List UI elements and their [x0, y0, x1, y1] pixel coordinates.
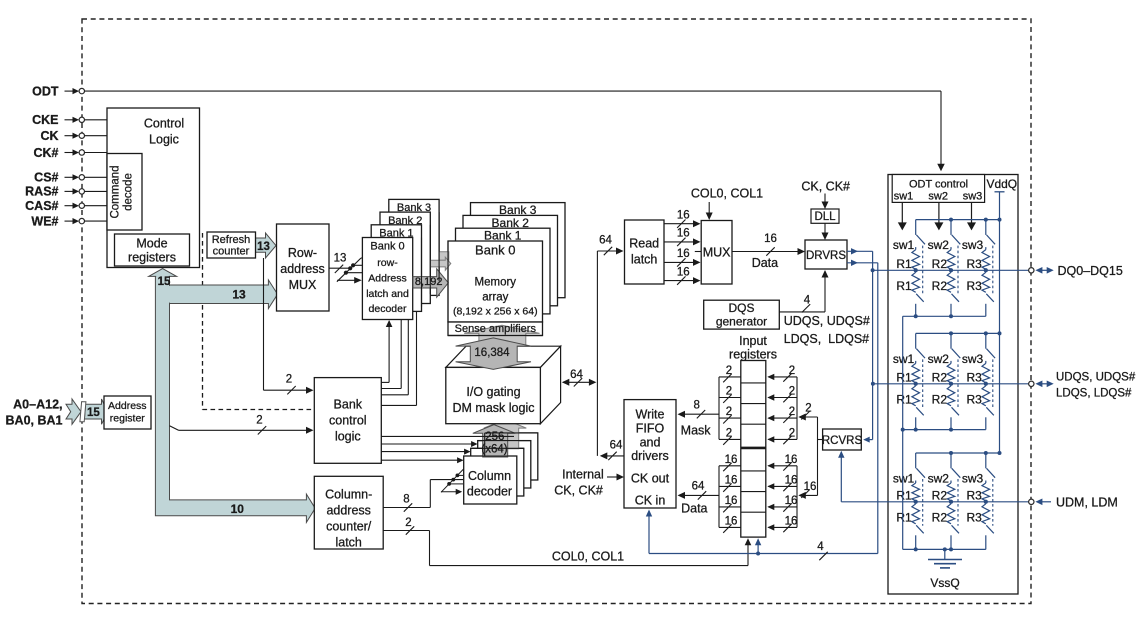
ODT control block [892, 175, 984, 203]
svg-text:64: 64 [599, 235, 612, 247]
svg-text:2: 2 [726, 428, 732, 440]
svg-text:MUX: MUX [703, 246, 731, 260]
resistor R3 upper of group 3 DM termination [985, 481, 987, 484]
svg-text:VssQ: VssQ [930, 576, 959, 590]
switch sw2 of group 2 DQS termination [950, 333, 952, 348]
switch control dashed link sw1 [922, 359, 924, 407]
wire DRVRS output to DQ net [847, 250, 873, 252]
wires bank control logic to row decoders behind banks [381, 388, 401, 390]
switch control arrows sw1 sw2 sw3 [901, 202, 903, 223]
svg-text:sw2: sw2 [928, 238, 950, 252]
svg-text:UDQS, UDQS#: UDQS, UDQS# [784, 314, 870, 328]
junction dot column 1 [914, 500, 918, 504]
bidirectional arrow DQ [1039, 269, 1050, 271]
RCVRS block [823, 429, 862, 450]
svg-text:Data: Data [752, 256, 778, 270]
svg-text:R2: R2 [932, 510, 948, 524]
switch sw2 lower blade of group 2 DQS termination [952, 407, 960, 415]
svg-text:sw1: sw1 [893, 472, 915, 486]
wire internal clock into write FIFO [607, 476, 622, 478]
wire WE# to control logic [85, 220, 108, 222]
gray arrow 16384 shadow [464, 325, 539, 357]
chip boundary dashed border [82, 19, 1031, 604]
junction dot column 3 [984, 382, 988, 386]
VddQ supply wire [995, 191, 1005, 193]
svg-text:16: 16 [677, 209, 690, 221]
svg-text:latch: latch [631, 253, 657, 267]
svg-text:registers: registers [729, 348, 777, 362]
bidirectional arrow DQS [1039, 383, 1050, 385]
svg-text:DRVRS: DRVRS [806, 250, 846, 262]
svg-text:Address: Address [108, 400, 147, 412]
bank 1 row decoder box [371, 225, 421, 312]
teal arrow 13 from refresh counter to row-address MUX [256, 233, 277, 258]
svg-text:FIFO: FIFO [636, 422, 665, 436]
resistor R3 lower of group 3 DM termination [982, 504, 990, 524]
svg-text:16: 16 [785, 495, 798, 507]
wire 13 from row-address MUX to bank row decoders [329, 267, 350, 269]
svg-text:latch: latch [335, 536, 361, 550]
svg-text:16,384: 16,384 [474, 347, 510, 359]
svg-text:Memory: Memory [475, 276, 517, 288]
right bus wires into data register cells width 16 [796, 466, 798, 528]
resistor R3 lower of group 2 DQS termination [982, 386, 990, 406]
wire bank control logic to bank 3 column decoder [381, 435, 514, 437]
svg-text:DQ0–DQ15: DQ0–DQ15 [1058, 264, 1123, 278]
switch sw3 lower blade of group 3 DM termination [986, 525, 994, 533]
svg-text:16: 16 [804, 481, 817, 493]
svg-text:DQS: DQS [728, 301, 754, 315]
command decode block [107, 154, 142, 231]
control logic block [107, 108, 200, 268]
svg-text:2: 2 [256, 415, 262, 427]
svg-text:R2: R2 [932, 392, 948, 406]
switch sw3 of group 2 DQS termination [985, 333, 987, 348]
ODT group 2 DQS termination bottom rail [903, 429, 986, 431]
svg-text:RCVRS: RCVRS [822, 435, 863, 447]
svg-text:16: 16 [677, 266, 690, 278]
svg-text:decode: decode [123, 173, 135, 211]
refresh counter block [207, 232, 256, 258]
svg-text:R1: R1 [896, 257, 912, 271]
gray bus arrow 8192 shadow bank2 [439, 252, 449, 260]
svg-text:Bank 0: Bank 0 [475, 242, 515, 257]
sense amplifiers block [448, 322, 543, 336]
wire 64 double arrow I/O gating to data bus [563, 381, 595, 383]
row-address MUX block [277, 224, 330, 311]
svg-text:CAS#: CAS# [25, 199, 58, 213]
svg-text:64: 64 [692, 480, 705, 492]
switch control dashed link sw3 [992, 246, 994, 295]
svg-text:LDQS, LDQS#: LDQS, LDQS# [784, 332, 869, 346]
resistor R3 upper of group 1 DQ termination [985, 247, 987, 250]
svg-text:R1: R1 [896, 510, 912, 524]
resistor R2 lower of group 1 DQ termination [947, 272, 955, 292]
resistor R1 upper of group 2 DQS termination [915, 361, 917, 364]
wire ODT to ODT control [85, 90, 942, 92]
switch sw1 lower blade of group 2 DQS termination [916, 407, 924, 415]
svg-text:16: 16 [677, 228, 690, 240]
wire CAS# to control logic [85, 205, 108, 207]
svg-text:R3: R3 [966, 510, 982, 524]
wire address band to bank control logic with width 2 [170, 426, 179, 431]
svg-text:CS#: CS# [34, 171, 58, 185]
svg-text:Command: Command [110, 165, 122, 218]
input registers block [741, 361, 766, 538]
svg-text:Control: Control [144, 117, 184, 131]
svg-text:Data: Data [681, 501, 707, 515]
svg-text:13: 13 [334, 252, 347, 264]
bank 2 memory array box [463, 215, 558, 305]
sense amplifiers bottom edge over shadow [448, 335, 543, 337]
svg-text:UDM, LDM: UDM, LDM [1056, 495, 1118, 509]
junction dot column 2 [949, 268, 953, 272]
svg-text:15: 15 [158, 276, 171, 288]
wire DRVRS output to DQS net [847, 262, 878, 264]
svg-text:R1: R1 [896, 488, 912, 502]
svg-text:logic: logic [335, 430, 361, 444]
svg-text:Column-: Column- [325, 488, 372, 502]
svg-text:(x64): (x64) [481, 443, 507, 455]
svg-text:Internal: Internal [562, 468, 604, 482]
wire refresh path down to bank control logic with width 2 [263, 258, 265, 390]
wires 16 read latch to MUX [664, 223, 699, 225]
svg-text:16: 16 [785, 454, 798, 466]
tick on MUX left edge [695, 251, 701, 253]
switch sw2 of group 1 DQ termination [950, 220, 952, 235]
svg-text:counter/: counter/ [326, 520, 372, 534]
switch sw3 lower blade of group 2 DQS termination [986, 407, 994, 415]
svg-text:and: and [640, 436, 661, 450]
vertical DQS distribution wire [877, 263, 879, 554]
svg-text:MUX: MUX [289, 278, 317, 292]
svg-text:address: address [280, 262, 324, 276]
svg-text:row-: row- [377, 257, 398, 269]
left bus wires for mask register cells width 2 [718, 377, 720, 440]
resistor R2 upper of group 1 DQ termination [950, 247, 952, 250]
svg-text:4: 4 [817, 541, 824, 553]
ODT group 3 DM termination top rail [916, 452, 1000, 454]
svg-text:8: 8 [693, 399, 699, 411]
wire CK to control logic [85, 135, 108, 137]
svg-text:latch and: latch and [366, 288, 409, 300]
svg-text:Bank: Bank [334, 398, 363, 412]
ODT termination outer box [888, 175, 1018, 595]
teal vertical address bus band with arrow 10 to column-address counter [155, 276, 315, 523]
svg-text:sw3: sw3 [963, 191, 983, 203]
svg-text:R1: R1 [896, 370, 912, 384]
svg-text:sw2: sw2 [928, 191, 948, 203]
bank 1 memory array box [456, 228, 551, 314]
svg-text:ODT: ODT [32, 84, 59, 98]
wire 64 from write FIFO to data bus [601, 455, 624, 457]
svg-text:Row-: Row- [288, 246, 317, 260]
svg-text:8,192: 8,192 [415, 276, 443, 288]
svg-text:WE#: WE# [31, 214, 58, 228]
svg-text:drivers: drivers [631, 449, 669, 463]
svg-text:CKE: CKE [32, 113, 58, 127]
wire 64 Data from input registers to write FIFO [679, 494, 719, 496]
ODT group 1 DQ termination top rail [916, 219, 1000, 221]
gray arrow 256 x64 shadow [484, 419, 527, 448]
svg-text:sw3: sw3 [962, 472, 984, 486]
wire 4 DQS feedback to input registers and write FIFO [649, 553, 878, 555]
restroked column decoder edges over gray arrow [485, 432, 538, 434]
gray arrow 256 x64 from column decoder to I/O gating [473, 425, 516, 457]
svg-text:DM mask logic: DM mask logic [453, 401, 535, 415]
wire DQ0-DQ15 line [873, 269, 1029, 271]
resistor R1 lower of group 3 DM termination [912, 504, 920, 524]
svg-text:CK#: CK# [33, 146, 58, 160]
svg-text:COL0, COL1: COL0, COL1 [691, 187, 763, 201]
svg-text:8: 8 [403, 494, 409, 506]
svg-text:decoder: decoder [467, 484, 512, 498]
svg-text:R3: R3 [966, 392, 982, 406]
wire 4 DQS generator to DRVRS [779, 311, 825, 313]
right bus wires into mask register cells width 2 [796, 377, 798, 440]
thick divider between mask and data registers [741, 447, 766, 450]
svg-text:registers: registers [128, 251, 176, 265]
svg-text:2: 2 [726, 365, 732, 377]
ODT group 3 DM termination bottom rail [903, 548, 986, 550]
switch control dashed link sw1 [922, 246, 924, 295]
svg-text:Input: Input [739, 334, 767, 348]
resistor R3 lower of group 1 DQ termination [982, 272, 990, 292]
svg-text:Refresh: Refresh [212, 234, 251, 246]
svg-text:Bank 0: Bank 0 [370, 241, 404, 253]
wire bank control logic to bank 0 row decoder [381, 381, 389, 383]
wire RCVRS output to register clock buses [818, 439, 823, 441]
svg-text:sw1: sw1 [894, 191, 914, 203]
teal address bus A0-A12 input arrow outer part [66, 399, 81, 424]
svg-text:2: 2 [726, 406, 732, 418]
vertical DQ distribution wire to RCVRS [872, 251, 874, 439]
write FIFO and drivers block [624, 400, 676, 508]
restroked bank box edges over gray arrows [421, 238, 423, 307]
svg-text:13: 13 [232, 287, 246, 301]
MUX block [701, 221, 732, 285]
bank 3 memory array box [471, 203, 566, 298]
dashed control line from refresh counter to bank control logic [202, 233, 204, 410]
svg-text:R3: R3 [966, 257, 982, 271]
svg-text:generator: generator [716, 315, 767, 329]
resistor R1 upper of group 1 DQ termination [915, 247, 917, 250]
svg-text:CK out: CK out [631, 472, 670, 486]
svg-text:DLL: DLL [814, 211, 836, 223]
junction dot column 2 [949, 382, 953, 386]
svg-text:ODT control: ODT control [909, 178, 968, 190]
svg-text:Mode: Mode [136, 237, 167, 251]
wire 64 into read latch [597, 250, 621, 252]
teal address bus A0-A12 input arrow inner part [84, 399, 107, 424]
bank 3 row decoder box [389, 199, 439, 295]
svg-text:CK: CK [40, 129, 58, 143]
teal bus arrow 15 up into mode registers [149, 269, 177, 277]
switch sw1 of group 1 DQ termination [915, 220, 917, 235]
svg-text:Read: Read [629, 237, 659, 251]
wire 8 Mask from input registers to write FIFO [679, 413, 719, 415]
junction dot column 3 [984, 500, 988, 504]
switch sw2 lower blade of group 1 DQ termination [952, 294, 960, 302]
wire 8 from column-address counter to column decoders [383, 507, 430, 509]
switch sw1 lower blade of group 1 DQ termination [916, 294, 924, 302]
bank 2 column decoder box [478, 441, 531, 488]
junction dot column 1 [914, 268, 918, 272]
svg-text:I/O gating: I/O gating [466, 385, 520, 399]
read latch block [625, 220, 665, 284]
svg-text:2: 2 [405, 517, 411, 529]
svg-text:Column: Column [468, 469, 511, 483]
bank 0 row-address latch and decoder block [362, 238, 412, 320]
switch control dashed link sw2 [957, 246, 959, 295]
bank 0 column decoder block [464, 456, 517, 504]
svg-text:COL0, COL1: COL0, COL1 [552, 550, 624, 564]
junction dot column 3 [984, 268, 988, 272]
svg-text:CK, CK#: CK, CK# [554, 484, 603, 498]
svg-text:Mask: Mask [681, 424, 712, 438]
resistor R1 lower of group 2 DQS termination [912, 386, 920, 406]
bank control logic block [314, 378, 381, 464]
svg-text:sw2: sw2 [928, 352, 950, 366]
resistor R3 upper of group 2 DQS termination [985, 361, 987, 364]
resistor R2 upper of group 3 DM termination [950, 481, 952, 484]
svg-text:64: 64 [610, 439, 623, 451]
bank 2 row decoder box [380, 212, 430, 303]
resistor R2 lower of group 2 DQS termination [947, 386, 955, 406]
DQS generator block [704, 300, 780, 329]
svg-text:2: 2 [286, 374, 292, 386]
wire UDM net up into RCVRS [840, 452, 842, 502]
svg-text:16: 16 [677, 248, 690, 260]
svg-text:Write: Write [636, 408, 665, 422]
gray bus arrow 8192 to memory array [413, 269, 448, 297]
input arrow UDM LDM [1039, 501, 1051, 503]
wires bank control logic to column decoders [381, 443, 476, 445]
svg-text:array: array [482, 291, 508, 303]
svg-text:BA0, BA1: BA0, BA1 [6, 414, 63, 428]
wire DLL to DRVRS [824, 223, 826, 238]
svg-text:VddQ: VddQ [986, 177, 1017, 191]
switch sw3 of group 3 DM termination [985, 453, 987, 468]
svg-text:16: 16 [785, 516, 798, 528]
svg-text:counter: counter [213, 246, 250, 258]
svg-text:13: 13 [257, 241, 270, 253]
svg-text:A0–A12,: A0–A12, [13, 398, 62, 412]
svg-text:16: 16 [764, 233, 777, 245]
wire CK to DLL [824, 194, 826, 208]
wire CK# to control logic [85, 152, 108, 154]
svg-text:register: register [110, 413, 146, 425]
svg-text:control: control [329, 414, 367, 428]
wire RAS# to control logic [85, 190, 108, 192]
gray double arrow 16384 between sense amplifiers and I/O gating [456, 338, 531, 370]
bank 1 column decoder box [471, 448, 524, 496]
svg-text:R3: R3 [966, 488, 982, 502]
wire CKE to control logic [85, 119, 108, 121]
I/O gating DM mask logic block 3D box [446, 346, 561, 367]
ODT group 2 DQS termination top rail [916, 332, 1000, 334]
svg-text:15: 15 [87, 407, 100, 419]
svg-text:10: 10 [231, 502, 245, 516]
ODT group 1 DQ termination bottom rail [903, 315, 986, 317]
switch control dashed link sw2 [957, 359, 959, 407]
wire COL0 COL1 from column-address counter with width 2 [383, 530, 429, 532]
ground bus wire connecting termination groups [902, 316, 904, 549]
svg-text:sw3: sw3 [962, 352, 984, 366]
svg-text:CK in: CK in [635, 494, 666, 508]
switch sw2 lower blade of group 3 DM termination [952, 525, 960, 533]
wire UDM LDM line [841, 501, 1028, 503]
wire COL0 COL1 arrow into MUX [708, 202, 710, 218]
svg-text:2: 2 [726, 386, 732, 398]
resistor R2 lower of group 3 DM termination [947, 504, 955, 524]
switch sw1 lower blade of group 3 DM termination [916, 525, 924, 533]
wire UDQS LDQS line [873, 383, 1029, 385]
resistor R1 lower of group 1 DQ termination [912, 272, 920, 292]
svg-text:R1: R1 [896, 392, 912, 406]
left bus wires for data register cells width 16 [718, 466, 720, 528]
switch sw1 of group 3 DM termination [915, 453, 917, 468]
teal bus arrow 13 to row-address MUX [170, 280, 278, 309]
svg-text:R1: R1 [896, 279, 912, 293]
svg-text:(8,192 x 256 x 64): (8,192 x 256 x 64) [453, 306, 538, 318]
DRVRS block [805, 240, 847, 269]
ground symbol VssQ [944, 549, 946, 559]
gray bus arrow 8192 shadow bank1 [431, 257, 451, 270]
junction dot column 2 [949, 500, 953, 504]
svg-text:sw1: sw1 [893, 238, 915, 252]
switch control dashed link sw1 [922, 479, 924, 526]
switch sw3 lower blade of group 1 DQ termination [986, 294, 994, 302]
wire 16 Data from MUX to DRVRS [732, 251, 803, 253]
svg-text:R2: R2 [932, 370, 948, 384]
svg-text:16: 16 [785, 475, 798, 487]
column-address counter/latch block [314, 476, 383, 549]
DLL block [811, 209, 839, 223]
resistor R1 upper of group 3 DM termination [915, 481, 917, 484]
switch sw3 of group 1 DQ termination [985, 220, 987, 235]
switch sw1 of group 2 DQS termination [915, 333, 917, 348]
switch control dashed link sw3 [992, 479, 994, 526]
svg-text:R2: R2 [932, 488, 948, 502]
svg-text:UDQS, UDQS#: UDQS, UDQS# [1056, 372, 1136, 384]
wire CS# to control logic [85, 176, 108, 178]
switch control dashed link sw2 [957, 479, 959, 526]
svg-text:Address: Address [368, 273, 407, 285]
svg-text:RAS#: RAS# [25, 185, 58, 199]
svg-text:sw3: sw3 [962, 238, 984, 252]
svg-text:address: address [326, 504, 370, 518]
svg-text:Sense amplifiers: Sense amplifiers [455, 323, 537, 335]
svg-text:CK, CK#: CK, CK# [801, 180, 850, 194]
svg-text:Logic: Logic [149, 133, 179, 147]
svg-text:R2: R2 [932, 279, 948, 293]
address register block [104, 396, 151, 429]
internal 64-bit data bus vertical wire [596, 251, 598, 456]
svg-text:sw1: sw1 [893, 352, 915, 366]
svg-text:R2: R2 [932, 257, 948, 271]
svg-text:decoder: decoder [369, 303, 407, 315]
switch sw2 of group 3 DM termination [950, 453, 952, 468]
switch control dashed link sw3 [992, 359, 994, 407]
pin gap on chip border for address bus [80, 402, 86, 422]
svg-text:sw2: sw2 [928, 472, 950, 486]
bank 3 column decoder box [485, 433, 538, 480]
svg-text:R3: R3 [966, 279, 982, 293]
mode registers block [115, 234, 190, 266]
resistor R2 upper of group 2 DQS termination [950, 361, 952, 364]
junction dot column 1 [914, 382, 918, 386]
